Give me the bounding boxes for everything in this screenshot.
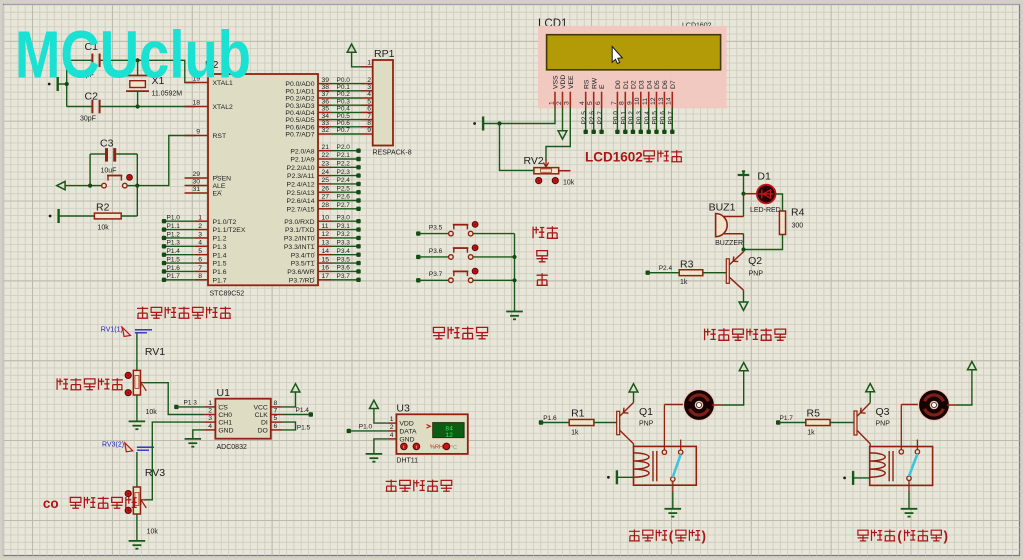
relay RL1 contacts (662, 405, 683, 493)
svg-text:8: 8 (198, 273, 202, 280)
wire LCD D5 to P0.5 (656, 108, 658, 132)
svg-text:1: 1 (390, 416, 394, 423)
terminal dot P1.2 (162, 236, 166, 240)
wire Q3 emitter up (869, 392, 871, 403)
svg-text:P2.2: P2.2 (337, 161, 351, 168)
pin stub XTAL1 (185, 82, 209, 84)
pin stub P2.0 (318, 150, 332, 152)
svg-text:PNP: PNP (639, 421, 654, 428)
resistor R5 (806, 419, 830, 425)
wire relay2 common to gnd (908, 492, 910, 508)
svg-text:VDD: VDD (399, 421, 413, 428)
svg-text:P3.3/INT1: P3.3/INT1 (284, 244, 315, 251)
relay RL2 core (889, 451, 893, 481)
svg-text:P1.6: P1.6 (167, 265, 181, 272)
svg-text:4: 4 (208, 423, 212, 430)
resistor pack RP1 (373, 60, 393, 146)
terminal dot P2.4 (646, 271, 650, 275)
resistor R1 (569, 419, 594, 425)
pin stub P1.2 (195, 237, 208, 239)
label 继电器 (purifier relay) (858, 530, 896, 541)
power bar terminal (relay2 coil) (843, 471, 870, 485)
svg-text:7: 7 (198, 265, 202, 272)
svg-text:P0.5/AD5: P0.5/AD5 (285, 117, 314, 124)
label co气体值调节 (hanzi part) (70, 497, 137, 509)
wire terminal P2.4 (332, 183, 359, 185)
svg-text:P1.5: P1.5 (213, 261, 227, 268)
svg-text:10k: 10k (147, 529, 159, 536)
svg-text:Q1: Q1 (639, 406, 653, 418)
terminal dot P1.4 (162, 252, 166, 256)
DHT11 screen pointer (427, 425, 431, 429)
svg-text:1k: 1k (571, 430, 579, 437)
RV3 adjust dot 2 (125, 507, 131, 513)
svg-text:RV3: RV3 (145, 467, 165, 479)
svg-text:13: 13 (322, 240, 330, 247)
svg-text:P3.4: P3.4 (337, 248, 351, 255)
ADC pin stub DO (271, 429, 282, 431)
terminal dot P1.6 (539, 420, 543, 424)
svg-text:DHT11: DHT11 (396, 458, 418, 465)
wire R4 to junction (744, 235, 783, 250)
LCD pin stub D1 (624, 92, 626, 108)
resistor R4 (779, 211, 785, 235)
pin stub P2.6 (318, 200, 332, 202)
svg-text:BUZ1: BUZ1 (709, 202, 736, 214)
pin stub P1.3 (195, 245, 208, 247)
pin stub P3.0 (318, 220, 332, 222)
svg-text:34: 34 (322, 113, 330, 120)
pin stub P0.7 (318, 133, 332, 135)
LCD pin stub RS (585, 92, 587, 108)
svg-text:P0.1/AD1: P0.1/AD1 (285, 88, 314, 95)
label 声光报警电路 (705, 328, 786, 340)
wire RV1 wiper to CH0 (145, 383, 205, 415)
motor M1 (684, 390, 715, 421)
svg-text:3: 3 (208, 415, 212, 422)
svg-text:PNP: PNP (876, 421, 891, 428)
svg-text:LCD1602: LCD1602 (585, 150, 643, 165)
wire RV3 bottom (136, 514, 138, 540)
svg-text:RV1: RV1 (145, 346, 165, 358)
pin stub P3.7 (318, 279, 332, 281)
pin stub P2.7 (318, 208, 332, 210)
pin stub P1.7 (195, 279, 208, 281)
RV3 body mark (135, 492, 139, 505)
wire P3.7 to key (418, 279, 448, 281)
power terminal Q3 (866, 384, 875, 392)
svg-text:13: 13 (658, 97, 665, 105)
LCD pin stub D5 (656, 92, 658, 108)
LCD pin stub D2 (632, 92, 634, 108)
pin stub P1.6 (195, 270, 208, 272)
svg-text:P1 3: P1 3 (184, 399, 198, 406)
svg-text:3: 3 (198, 231, 202, 238)
svg-text:P0.1: P0.1 (337, 84, 351, 91)
svg-text:37: 37 (322, 91, 330, 98)
wire terminal P1.4 (164, 254, 195, 256)
wire Q1 emitter up (633, 392, 635, 402)
terminal dot P2.7 (599, 130, 603, 134)
label 净化器 (905, 530, 942, 541)
svg-text:P3.7/RD: P3.7/RD (289, 277, 315, 284)
wire LCD D4 to P0.4 (648, 108, 650, 132)
junction key bus 2 (512, 278, 516, 282)
wire VDD to power (374, 409, 388, 423)
svg-text:6: 6 (367, 106, 371, 113)
resistor R2 (94, 213, 121, 219)
svg-text:P0.6: P0.6 (660, 111, 667, 125)
svg-text:5: 5 (587, 101, 594, 105)
terminal dot P0.5 (654, 130, 658, 134)
wire C2 left (67, 106, 93, 108)
LCD pin stub RW (593, 92, 595, 108)
wire P0.2 to RP1 (332, 97, 362, 99)
terminal dot P1.3 (174, 405, 178, 409)
MCU U2 STC89C52 body (208, 74, 318, 285)
svg-text:RV3(2): RV3(2) (102, 442, 124, 449)
relay RL1 core (653, 451, 657, 481)
svg-text:P1.5: P1.5 (167, 256, 181, 263)
svg-text:35: 35 (322, 106, 330, 113)
pin stub P3.4 (318, 254, 332, 256)
svg-text:VCC: VCC (253, 405, 267, 412)
svg-text:U3: U3 (396, 403, 410, 415)
svg-text:D4: D4 (646, 80, 653, 89)
svg-text:°C: °C (451, 445, 457, 451)
terminal dot P0.4 (647, 130, 651, 134)
pin stub P0.5 (318, 119, 332, 121)
svg-text:P0.2: P0.2 (628, 111, 635, 125)
svg-text:P3.0/RXD: P3.0/RXD (284, 219, 314, 226)
terminal dot P2.2 (356, 165, 360, 169)
svg-text:P2.3: P2.3 (337, 169, 351, 176)
push button key2 (449, 248, 473, 259)
svg-text:22: 22 (322, 152, 330, 159)
svg-text:P0.5: P0.5 (652, 111, 659, 125)
svg-text:23: 23 (322, 161, 330, 168)
wire VSS to gnd rail (500, 108, 556, 124)
wire gnd vertical C1-C2 (66, 60, 68, 106)
RP1 pin stub 1 (361, 66, 373, 68)
svg-text:RV2: RV2 (524, 155, 544, 167)
RV1 wiper arrow (141, 382, 147, 391)
RP1 pin stub 8 (361, 126, 373, 128)
crystal X1 (126, 60, 149, 106)
svg-text:2: 2 (390, 424, 394, 431)
wire buzzer bottom (743, 234, 745, 250)
LCD pin stub D0 (616, 92, 618, 108)
wire P0.7 to RP1 (332, 133, 362, 135)
power terminal reset (left arrow) (57, 181, 65, 189)
terminal dot P1.0 (347, 429, 351, 433)
wire LCD D6 to P0.6 (663, 108, 665, 132)
svg-text:D1: D1 (757, 171, 771, 183)
pin stub P2.4 (318, 183, 332, 185)
ground (RV3) (129, 541, 146, 549)
svg-text:P0.4: P0.4 (337, 106, 351, 113)
svg-text:P3.5: P3.5 (429, 224, 443, 231)
terminal dot P0.0 (615, 130, 619, 134)
LCD pin stub D6 (663, 92, 665, 108)
wire R2 right (121, 215, 137, 217)
capacitor C3 (10uF) (105, 148, 116, 162)
svg-text:P2.5: P2.5 (581, 111, 588, 125)
DHT11 button dot 1 (401, 443, 408, 450)
wire junction down to R2 (136, 186, 138, 216)
RV3 actuator arrow (125, 443, 133, 452)
potentiometer RV1 body (133, 370, 140, 395)
wire key bus vertical (514, 234, 516, 311)
wire P0.5 to RP1 (332, 119, 362, 121)
pin stub P2.1 (318, 158, 332, 160)
wire motor2 to power (958, 370, 972, 405)
svg-text:P1.6: P1.6 (213, 269, 227, 276)
ground (RV1) (129, 421, 146, 429)
wire P0.6 to RP1 (332, 126, 362, 128)
svg-text:P0.7: P0.7 (668, 111, 675, 125)
wire P1.6 to R1 (541, 422, 569, 424)
junction buzzer/R4/Q2 (741, 247, 745, 251)
terminal dot P3.5 (356, 261, 360, 265)
svg-text:2: 2 (367, 77, 371, 84)
terminal dot P0.6 (662, 130, 666, 134)
relay RL2 coil (870, 453, 886, 477)
wire terminal P2.5 (332, 191, 359, 193)
ground (relay1) (665, 509, 682, 517)
pin stub P1.4 (195, 254, 208, 256)
terminal dot P2.6 (356, 198, 360, 202)
terminal dot P0.3 (639, 130, 643, 134)
svg-text:D1: D1 (623, 80, 630, 89)
svg-text:U1: U1 (217, 387, 231, 399)
pin stub P3.2 (318, 237, 332, 239)
wire RP1 pin1 (352, 52, 361, 67)
svg-text:P0.6: P0.6 (337, 120, 351, 127)
ADC pin stub CH1 (204, 421, 215, 423)
svg-text:30: 30 (192, 179, 200, 186)
svg-text:P1.0: P1.0 (167, 215, 181, 222)
svg-text:P0.2: P0.2 (337, 91, 351, 98)
svg-text:P3.6/WR: P3.6/WR (287, 269, 314, 276)
svg-text:P2.7: P2.7 (597, 111, 604, 125)
wire LCD D0 to P0.0 (616, 108, 618, 132)
wire terminal P1.7 (164, 279, 195, 281)
svg-text:21: 21 (322, 144, 330, 151)
svg-text:BUZZER: BUZZER (715, 240, 743, 247)
svg-text:STC89C52: STC89C52 (210, 291, 245, 298)
pin stub P3.5 (318, 262, 332, 264)
wire VCC to power (282, 392, 296, 407)
svg-text:P0.4/AD4: P0.4/AD4 (285, 110, 314, 117)
svg-text:GND: GND (218, 428, 233, 435)
svg-text:): ) (702, 529, 707, 544)
svg-text:P0.0: P0.0 (613, 111, 620, 125)
wire RST net (137, 136, 195, 186)
svg-text:P2.0/A8: P2.0/A8 (290, 148, 314, 155)
wire terminal P3.3 (332, 245, 359, 247)
terminal dot P2.3 (356, 173, 360, 177)
svg-text:P2.6: P2.6 (337, 194, 351, 201)
DHT11 screen (433, 423, 464, 438)
svg-text:RST: RST (213, 133, 227, 140)
svg-text:RW: RW (591, 77, 598, 89)
LCD pin stub D4 (648, 92, 650, 108)
svg-text:P1.4: P1.4 (213, 252, 227, 259)
wire GND to ground (DHT11) (374, 439, 388, 454)
svg-text:DI: DI (261, 420, 268, 427)
wire terminal P3.6 (332, 270, 359, 272)
wire C3 loop top-left (90, 153, 106, 155)
power terminal motor2 (968, 362, 977, 370)
buzzer BUZ1 (716, 214, 728, 237)
svg-text:5: 5 (367, 98, 371, 105)
transistor Q2 (PNP) (726, 252, 743, 290)
button actuator dot (reset) (127, 175, 133, 181)
svg-text:R5: R5 (807, 408, 821, 420)
RV1 body mark (135, 375, 139, 388)
terminal dot P0.7 (670, 130, 674, 134)
terminal dot P2.0 (356, 149, 360, 153)
svg-text:P0.7/AD7: P0.7/AD7 (285, 132, 314, 139)
wire motor1 to power (723, 371, 744, 405)
svg-text:3: 3 (564, 101, 571, 105)
svg-text:P2.5: P2.5 (337, 185, 351, 192)
junction reset right (135, 184, 139, 188)
relay RL2 contacts (899, 405, 920, 493)
svg-text:38: 38 (322, 84, 330, 91)
svg-text:C3: C3 (100, 138, 114, 150)
wire terminal P2.0 (332, 150, 359, 152)
wire buzzer top (743, 194, 745, 217)
relay RL1 lever (673, 454, 681, 477)
ADC pin stub CS (204, 406, 215, 408)
wire arrow to button (65, 185, 102, 187)
svg-text:EA: EA (213, 191, 223, 198)
wire LCD D3 to P0.3 (640, 108, 642, 132)
RV3 actuator dashes (137, 447, 154, 450)
power terminal Q1 (629, 384, 638, 392)
svg-text:LED-RED: LED-RED (750, 207, 781, 214)
LCD pin stub VSS (554, 92, 556, 108)
svg-text:E: E (599, 84, 606, 89)
svg-text:10: 10 (634, 97, 641, 105)
power terminal down (Q2) (739, 302, 748, 310)
svg-text:DATA: DATA (399, 429, 417, 436)
RP1 pin stub 4 (361, 97, 373, 99)
svg-text:P2.3/A11: P2.3/A11 (287, 173, 315, 180)
LED D1 (LED-RED) (757, 185, 776, 204)
svg-text:(: ( (669, 529, 674, 544)
pin stub RST (185, 135, 209, 137)
ADC pin stub CLK (271, 414, 282, 416)
pin stub PSEN (185, 177, 209, 179)
svg-text:P1.3: P1.3 (213, 244, 227, 251)
svg-text:D5: D5 (654, 80, 661, 89)
terminal dot P0.1 (623, 130, 627, 134)
pin stub P0.3 (318, 104, 332, 106)
LCD1602 screen (547, 35, 721, 70)
motor2 right pin (947, 404, 958, 406)
svg-text:D2: D2 (631, 80, 638, 89)
ground bar terminal (alarm top) (738, 170, 750, 175)
wire terminal P1.3 (164, 245, 195, 247)
svg-text:5: 5 (198, 248, 202, 255)
terminal dot P1.6 (162, 269, 166, 273)
svg-text:%RH: %RH (430, 445, 444, 451)
terminal dot P1.7 (162, 278, 166, 282)
terminal dot P3.3 (356, 244, 360, 248)
svg-text:VDD: VDD (560, 75, 567, 89)
RV2 adjust dot 1 (536, 178, 542, 184)
mouse cursor (612, 47, 622, 64)
wire P1.3 to CS (176, 406, 204, 408)
svg-text:CS: CS (218, 405, 228, 412)
svg-text:R4: R4 (791, 207, 805, 219)
wire GND to ground (193, 430, 205, 439)
svg-text:MCUclub: MCUclub (15, 18, 251, 93)
svg-text:31: 31 (192, 186, 200, 193)
relay RL2 body (870, 447, 933, 486)
wire terminal P1.5 (164, 262, 195, 264)
wire R3 to Q2 base (703, 272, 727, 274)
terminal dot P3.2 (356, 236, 360, 240)
wire Q2 collector down (743, 290, 745, 302)
wire VEE to RV2 wiper (546, 108, 570, 161)
label 设置 (533, 226, 558, 238)
svg-text:P2.1: P2.1 (337, 152, 351, 159)
svg-text:4: 4 (367, 91, 371, 98)
svg-text:17: 17 (322, 273, 330, 280)
svg-text:1k: 1k (680, 279, 688, 286)
wire terminal P3.4 (332, 254, 359, 256)
wire C2 to XTAL2 (99, 106, 195, 108)
wire DI-DO loop P1.5 (282, 422, 296, 430)
svg-text:RP1: RP1 (374, 48, 395, 60)
svg-text:9: 9 (196, 129, 200, 136)
wire C1 left (67, 59, 93, 61)
key1 actuator dot (472, 222, 478, 228)
svg-text:4: 4 (390, 432, 394, 439)
svg-text:2: 2 (198, 223, 202, 230)
DHT11 pin stub GND (388, 438, 397, 440)
wire key2 to bus (473, 256, 515, 258)
wire C3 loop left (89, 154, 91, 186)
svg-text:P0.2/AD2: P0.2/AD2 (285, 96, 314, 103)
RP1 pin stub 6 (361, 111, 373, 113)
junction LCD gnd (497, 121, 501, 125)
potentiometer RV3 body (133, 487, 140, 514)
relay RL2 lever (909, 454, 917, 476)
svg-text:P0.4: P0.4 (644, 111, 651, 125)
svg-text:10k: 10k (146, 409, 158, 416)
svg-text:D7: D7 (670, 80, 677, 89)
svg-text:P3.2/INT0: P3.2/INT0 (284, 236, 315, 243)
pin stub P3.1 (318, 229, 332, 231)
wire Q3 collector to relay (869, 444, 871, 447)
svg-text:ALE: ALE (213, 183, 226, 190)
svg-text:P2.7: P2.7 (337, 202, 351, 209)
RV1 actuator dashes (135, 330, 152, 333)
svg-text:16: 16 (322, 265, 330, 272)
wire C1 to XTAL1 (99, 60, 195, 82)
wire RV3 wiper to CH1 (145, 422, 205, 500)
svg-text:8: 8 (619, 101, 626, 105)
terminal dot P3.7 (356, 278, 360, 282)
svg-text:11: 11 (322, 223, 329, 230)
wire terminal P2.7 (332, 208, 359, 210)
svg-text:CH0: CH0 (218, 412, 232, 419)
